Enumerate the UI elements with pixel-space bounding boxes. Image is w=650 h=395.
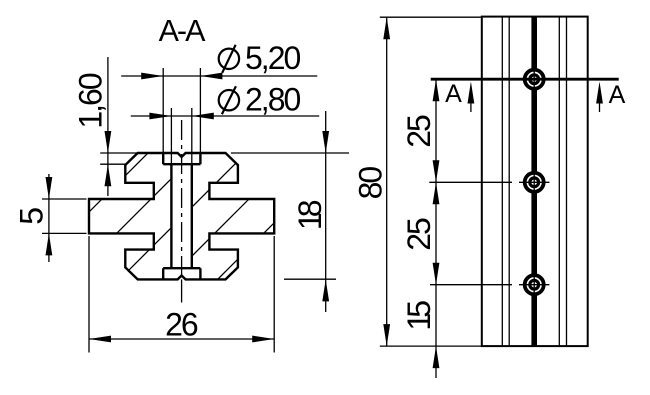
dimension 25 (middle) (433, 182, 440, 204)
top counterbore Ø5.20 (163, 153, 200, 164)
bottom counterbore Ø5.20 (163, 268, 200, 279)
profile edge lines (501, 17, 503, 347)
dimension 80 (380, 16, 482, 18)
central slot (thick) (531, 17, 537, 347)
svg-text:25: 25 (401, 115, 437, 148)
vertical centerline (181, 120, 183, 279)
svg-text:A: A (445, 80, 462, 108)
svg-text:26: 26 (165, 306, 198, 342)
dimension 5 arm height (48, 174, 50, 262)
dimension Ø5,20 (121, 75, 317, 77)
section view A-A hatching (16, 140, 357, 285)
hole 2 (525, 173, 544, 192)
front view outline (482, 17, 588, 347)
hole 3 (525, 275, 544, 294)
dimension Ø2,80 (131, 115, 319, 117)
svg-text:25: 25 (401, 218, 437, 251)
hole extension lines (429, 181, 512, 183)
dimension 1,60 counterbore depth (107, 57, 109, 196)
hole 1 (525, 70, 544, 89)
svg-text:18: 18 (292, 200, 328, 230)
section arrow left (468, 82, 475, 104)
svg-text:5,20: 5,20 (245, 40, 300, 76)
section arrow right (596, 82, 603, 104)
svg-text:1,60: 1,60 (73, 73, 109, 128)
dimension 18 overall height (325, 111, 327, 312)
svg-text:15: 15 (401, 301, 437, 331)
dimension 15 (bottom) (433, 346, 440, 368)
profile cross-section outline (89, 153, 274, 279)
svg-text:5: 5 (14, 208, 50, 225)
svg-text:A: A (609, 81, 626, 109)
through hole Ø2.80 walls (171, 164, 191, 268)
dimension 25 (top) (433, 79, 440, 101)
section line A-A (431, 78, 619, 81)
dimension 26 overall width (89, 338, 274, 340)
svg-text:80: 80 (352, 167, 388, 200)
svg-text:A-A: A-A (159, 14, 207, 48)
dimension chain line (435, 79, 437, 346)
svg-text:2,80: 2,80 (245, 82, 300, 118)
